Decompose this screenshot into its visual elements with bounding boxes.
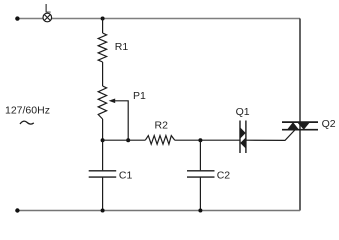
svg-text:R1: R1 xyxy=(115,41,129,53)
svg-text:Q2: Q2 xyxy=(322,118,336,130)
wire C2 bottom lead xyxy=(199,178,201,211)
wire P1 bottom lead xyxy=(102,119,104,140)
node junction C2 bottom xyxy=(198,209,202,213)
node junction C1 bottom xyxy=(101,209,105,213)
potentiometer P1 xyxy=(98,86,106,119)
wire mid (node to R2) xyxy=(103,139,146,141)
AC tilde symbol xyxy=(20,121,34,124)
wire diac to triac gate xyxy=(246,129,296,140)
wire C1 bottom lead xyxy=(102,178,104,211)
resistor R2 xyxy=(145,136,175,145)
terminal dot bottom-left xyxy=(15,208,19,212)
P1 wiper arrow xyxy=(109,99,129,141)
svg-text:R2: R2 xyxy=(155,119,169,131)
wire right (triac vertical leg) xyxy=(299,19,301,211)
node junction mid-left xyxy=(101,138,105,142)
svg-text:P1: P1 xyxy=(133,90,146,102)
resistor R1 xyxy=(98,33,106,62)
wire C2 top lead xyxy=(199,140,201,170)
wire top (AC line to triac) xyxy=(17,18,300,20)
lamp L xyxy=(43,13,52,22)
wire R1 top lead xyxy=(102,19,104,34)
triac Q2 xyxy=(282,122,318,130)
node junction top (R1 branch) xyxy=(101,17,105,21)
terminal dot top-left xyxy=(15,16,19,20)
diac Q1 xyxy=(240,121,246,154)
svg-text:L: L xyxy=(45,3,52,15)
wire C1 top lead xyxy=(102,140,104,170)
node junction wiper to mid wire xyxy=(126,138,130,142)
wire R1-P1 lead xyxy=(102,62,104,86)
svg-text:C2: C2 xyxy=(217,170,231,182)
node junction C2 top xyxy=(198,138,202,142)
svg-text:C1: C1 xyxy=(119,170,133,182)
wire bottom (return to AC) xyxy=(17,210,300,212)
wire R2 to diac xyxy=(175,139,240,141)
capacitor C1 xyxy=(89,171,117,177)
svg-text:127/60Hz: 127/60Hz xyxy=(5,105,50,117)
svg-text:Q1: Q1 xyxy=(236,106,250,118)
capacitor C2 xyxy=(187,171,215,177)
